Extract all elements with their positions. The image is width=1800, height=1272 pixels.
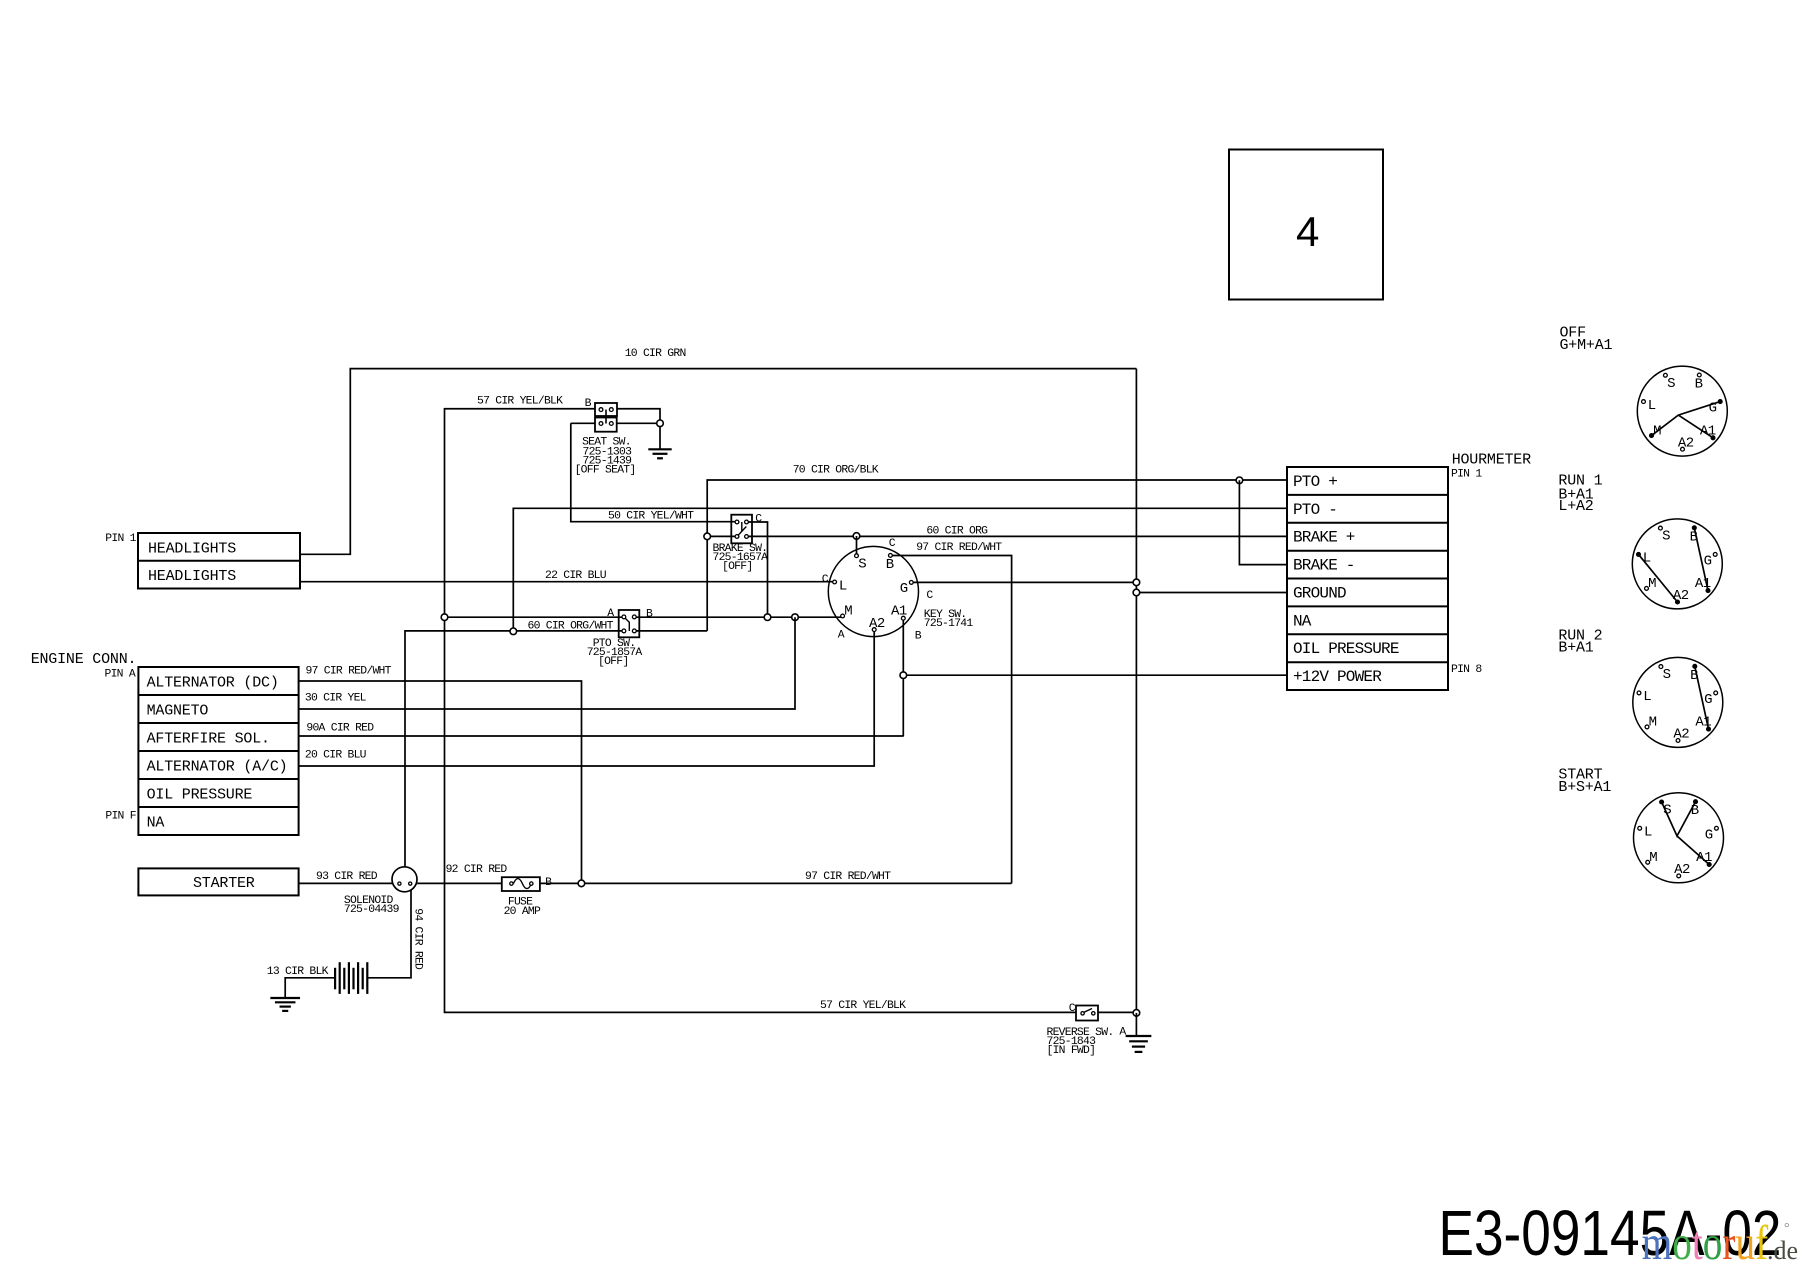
svg-text:G: G [1709, 401, 1717, 417]
svg-text:725-1741: 725-1741 [924, 618, 974, 630]
svg-text:30 CIR YEL: 30 CIR YEL [305, 693, 367, 705]
wire 92 CIR RED (solenoid to fuse) [417, 882, 502, 884]
engine connector [138, 667, 298, 835]
svg-text:B: B [1690, 668, 1698, 684]
svg-text:13 CIR BLK: 13 CIR BLK [267, 966, 329, 978]
svg-text:S: S [1663, 803, 1671, 819]
seat switch SEAT SW. 725-1303 725-1439 [595, 403, 617, 432]
svg-text:[OFF SEAT]: [OFF SEAT] [575, 465, 636, 477]
svg-text:92 CIR RED: 92 CIR RED [446, 864, 508, 876]
svg-text:G+M+A1: G+M+A1 [1560, 337, 1613, 354]
headlights connector [138, 533, 300, 589]
junction node (M net / brake C) [764, 614, 771, 621]
junction node (seat ground) [657, 420, 664, 427]
svg-text:ALTERNATOR (A/C): ALTERNATOR (A/C) [147, 758, 288, 775]
svg-text:HOURMETER: HOURMETER [1452, 452, 1531, 469]
svg-text:90A CIR RED: 90A CIR RED [306, 723, 374, 735]
svg-text:10 CIR GRN: 10 CIR GRN [625, 348, 686, 360]
wire GROUND row [1136, 592, 1287, 594]
svg-text:A: A [1119, 1027, 1126, 1039]
wire 97 CIR RED/WHT (key B) [890, 556, 1011, 884]
svg-text:MAGNETO: MAGNETO [147, 702, 209, 719]
svg-text:OIL PRESSURE: OIL PRESSURE [147, 786, 253, 803]
wire 22 CIR BLU [300, 581, 835, 583]
svg-text:94 CIR RED: 94 CIR RED [411, 908, 423, 970]
wire 93 CIR RED [299, 882, 392, 884]
svg-text:L: L [839, 578, 847, 594]
svg-text:t: t [1692, 1215, 1703, 1270]
key position diagram START [1634, 793, 1724, 883]
wire ground trunk (10 CIR GRN vertical) [1135, 369, 1137, 1013]
ground symbol (battery) [270, 997, 300, 999]
svg-text:C: C [889, 538, 896, 550]
svg-text:A1: A1 [1695, 715, 1711, 731]
wire PTO - [513, 508, 1287, 631]
junction node (PTO+/BRAKE-) [1236, 477, 1243, 484]
wire 13 CIR BLK [285, 978, 335, 997]
svg-text:C: C [822, 574, 829, 586]
svg-text:+12V POWER: +12V POWER [1293, 668, 1382, 686]
svg-text:B: B [915, 631, 922, 643]
wire ground stub (reverse) [1135, 1013, 1137, 1035]
svg-text:B: B [646, 608, 653, 620]
svg-text:G: G [1705, 827, 1713, 843]
svg-text:M: M [1653, 423, 1661, 439]
svg-text:C: C [1069, 1003, 1076, 1015]
svg-text:A2: A2 [1673, 727, 1689, 743]
hourmeter connector [1287, 467, 1448, 690]
junction node (ground row) [1133, 589, 1140, 596]
svg-text:50 CIR YEL/WHT: 50 CIR YEL/WHT [608, 511, 694, 523]
key position diagram OFF [1637, 366, 1727, 456]
svg-text:97 CIR RED/WHT: 97 CIR RED/WHT [805, 871, 891, 883]
solenoid SOLENOID 725-04439 [392, 867, 417, 892]
wire 97 CIR RED/WHT (alternator dc) [299, 681, 582, 883]
wire 50 CIR YEL/WHT [571, 423, 736, 521]
junction node (brake common) [704, 533, 711, 540]
svg-text:m: m [1642, 1215, 1672, 1270]
svg-text:L: L [1643, 689, 1651, 705]
svg-text:60 CIR ORG: 60 CIR ORG [926, 525, 988, 537]
svg-text:HEADLIGHTS: HEADLIGHTS [148, 540, 236, 557]
ground symbol (reverse switch) [1126, 1035, 1152, 1037]
wire 94 CIR RED (solenoid to battery) [367, 890, 411, 978]
svg-text:NA: NA [1293, 612, 1312, 630]
wire PTO B bottom to 70 net [634, 630, 707, 632]
wire 57 CIR YEL/BLK (seat to reverse) [445, 409, 1077, 1013]
svg-text:S: S [858, 556, 866, 572]
svg-text:M: M [1648, 576, 1656, 592]
svg-text:97 CIR RED/WHT: 97 CIR RED/WHT [916, 542, 1002, 554]
wire 70 CIR ORG/BLK (PTO +) [707, 480, 1287, 631]
svg-text:L+A2: L+A2 [1558, 498, 1593, 515]
brake switch BRAKE SW. 725-1657A [731, 515, 752, 544]
svg-text:PIN 1: PIN 1 [1451, 469, 1482, 481]
svg-text:G: G [1704, 692, 1712, 708]
key terminal letters [839, 556, 908, 632]
svg-text:GROUND: GROUND [1293, 585, 1346, 603]
watermark motoruf.de [1642, 1215, 1769, 1270]
svg-text:°: ° [1784, 1221, 1790, 1236]
svg-text:ENGINE CONN.: ENGINE CONN. [31, 651, 137, 668]
svg-text:57 CIR YEL/BLK: 57 CIR YEL/BLK [477, 396, 563, 408]
svg-text:PTO -: PTO - [1293, 501, 1337, 519]
svg-text:PIN 1: PIN 1 [105, 533, 136, 545]
svg-text:G: G [1704, 553, 1712, 569]
starter [138, 868, 298, 895]
svg-text:HEADLIGHTS: HEADLIGHTS [148, 568, 236, 585]
page number box 4 [1229, 150, 1383, 300]
svg-text:AFTERFIRE SOL.: AFTERFIRE SOL. [147, 730, 270, 747]
reverse switch REVERSE SW. 725-1843 [1076, 1006, 1098, 1021]
svg-text:NA: NA [147, 814, 165, 831]
svg-text:o: o [1672, 1215, 1692, 1270]
svg-text:4: 4 [1296, 208, 1319, 255]
svg-text:A2: A2 [869, 616, 885, 632]
svg-text:S: S [1667, 376, 1675, 392]
svg-text:BRAKE -: BRAKE - [1293, 557, 1355, 575]
junction node (M net / 30 CIR YEL) [792, 614, 799, 621]
svg-text:PIN A: PIN A [105, 669, 136, 681]
wire key A1 / +12V [903, 618, 1287, 736]
junction node (57 vertical / PTO A) [441, 614, 448, 621]
wire reverse switch to ground trunk [1098, 1011, 1136, 1013]
svg-text:r: r [1722, 1215, 1735, 1270]
wire brake switch common [707, 535, 1287, 537]
svg-text:[OFF]: [OFF] [598, 656, 628, 668]
svg-text:M: M [1649, 850, 1657, 866]
svg-text:[OFF]: [OFF] [722, 561, 752, 573]
svg-text:A: A [838, 629, 845, 641]
svg-text:L: L [1644, 825, 1652, 841]
svg-text:.de: .de [1767, 1236, 1798, 1265]
svg-text:A1: A1 [1696, 850, 1712, 866]
svg-text:M: M [1649, 715, 1657, 731]
key position diagram RUN 2 [1633, 657, 1723, 747]
svg-text:A2: A2 [1674, 862, 1690, 878]
svg-text:M: M [844, 604, 852, 620]
drawing number E3-09145A-02 [1439, 1199, 1782, 1270]
svg-text:A1: A1 [1700, 423, 1716, 439]
svg-text:OIL PRESSURE: OIL PRESSURE [1293, 640, 1399, 658]
wire PTO bottom to solenoid [405, 631, 624, 867]
key switch KEY SW. 725-1741 [828, 546, 918, 636]
wire BRAKE - branch [1239, 480, 1287, 564]
svg-text:S: S [1662, 529, 1670, 545]
wire key G to ground trunk [911, 581, 1136, 583]
wire 60 CIR ORG/WHT / M net [445, 616, 843, 618]
wire seat switch to ground [571, 409, 660, 449]
junction node (fuse / alt dc) [578, 880, 585, 887]
svg-text:B+A1: B+A1 [1558, 640, 1593, 657]
key position diagram RUN 1 [1632, 519, 1722, 609]
svg-text:STARTER: STARTER [193, 875, 255, 892]
PTO switch PTO SW. 725-1857A [619, 610, 640, 637]
svg-text:ALTERNATOR (DC): ALTERNATOR (DC) [147, 674, 279, 691]
wire 90A CIR RED [299, 735, 903, 737]
wire 30 CIR YEL [299, 617, 795, 709]
wire 20 CIR BLU / key A2 [299, 630, 875, 766]
wire 10 CIR GRN [300, 369, 1136, 555]
svg-text:PIN F: PIN F [105, 810, 136, 822]
ground symbol (seat switch) [648, 448, 671, 450]
wire brake C to M net [749, 522, 768, 617]
svg-text:97 CIR RED/WHT: 97 CIR RED/WHT [306, 666, 392, 678]
svg-text:PIN 8: PIN 8 [1451, 664, 1482, 676]
svg-text:22 CIR BLU: 22 CIR BLU [545, 570, 607, 582]
svg-text:G: G [900, 581, 908, 597]
junction node (reverse/ground) [1133, 1010, 1140, 1017]
wire key S stub [856, 536, 858, 556]
svg-text:A: A [607, 608, 614, 620]
svg-text:B: B [585, 398, 592, 410]
svg-text:725-04439: 725-04439 [344, 904, 400, 916]
svg-text:20 AMP: 20 AMP [504, 906, 541, 918]
junction node (G) [1133, 579, 1140, 586]
svg-text:B: B [545, 877, 552, 889]
svg-text:B: B [1695, 377, 1703, 393]
svg-text:S: S [1663, 667, 1671, 683]
svg-text:BRAKE +: BRAKE + [1293, 529, 1355, 547]
svg-text:B+S+A1: B+S+A1 [1558, 779, 1611, 796]
svg-text:A1: A1 [891, 604, 907, 620]
svg-text:A1: A1 [1695, 576, 1711, 592]
svg-text:20 CIR BLU: 20 CIR BLU [305, 750, 367, 762]
svg-text:93 CIR RED: 93 CIR RED [316, 871, 378, 883]
svg-text:L: L [1648, 398, 1656, 414]
svg-text:B: B [1690, 529, 1698, 545]
svg-text:o: o [1703, 1215, 1723, 1270]
wire 97 CIR RED/WHT (fuse out) [540, 882, 1012, 884]
svg-text:B: B [1691, 803, 1699, 819]
svg-text:B: B [886, 557, 894, 573]
svg-text:[IN FWD]: [IN FWD] [1047, 1045, 1096, 1057]
svg-text:57 CIR YEL/BLK: 57 CIR YEL/BLK [820, 1000, 906, 1012]
svg-text:A2: A2 [1673, 588, 1689, 604]
junction node (PTO - branch) [510, 628, 517, 635]
svg-text:u: u [1735, 1215, 1755, 1270]
svg-text:L: L [1643, 551, 1651, 567]
svg-text:C: C [926, 590, 933, 602]
svg-text:PTO +: PTO + [1293, 473, 1337, 491]
svg-text:C: C [755, 514, 762, 526]
junction node (key S branch) [853, 533, 860, 540]
junction node (A1/+12V) [900, 672, 907, 679]
battery [335, 962, 367, 994]
svg-text:70 CIR ORG/BLK: 70 CIR ORG/BLK [793, 464, 879, 476]
svg-text:A2: A2 [1678, 435, 1694, 451]
fuse FUSE 20 AMP [502, 877, 540, 891]
